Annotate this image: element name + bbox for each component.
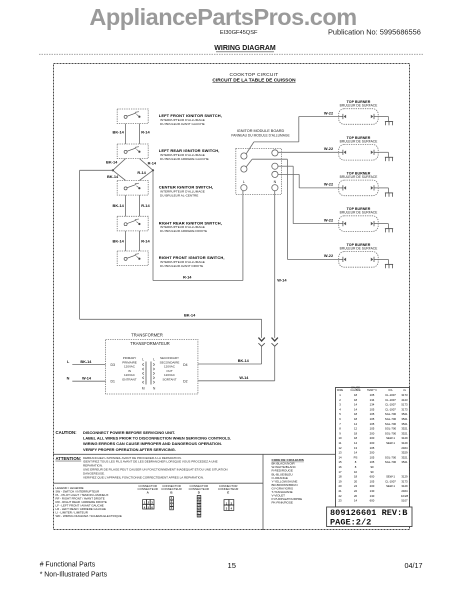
module board left terminal 2 — [241, 166, 247, 172]
svg-text:3129: 3129 — [401, 436, 408, 440]
svg-text:200: 200 — [370, 441, 375, 445]
svg-text:10: 10 — [354, 470, 358, 474]
svg-text:3521: 3521 — [401, 427, 408, 431]
svg-text:SGL-700: SGL-700 — [385, 427, 397, 431]
divider above LEGEND — [53, 482, 263, 484]
svg-text:14: 14 — [338, 455, 342, 459]
connector B header — [161, 484, 181, 495]
svg-text:D4: D4 — [183, 363, 187, 367]
wire BK-14 bus: crossover left node to left drop — [80, 169, 113, 171]
header separator rule — [39, 53, 424, 55]
svg-text:12: 12 — [338, 446, 342, 450]
label N / W-14 (primary bottom) — [67, 377, 92, 381]
svg-text:W-14: W-14 — [277, 277, 287, 282]
svg-text:DU BRULEUR AVANT DROITE: DU BRULEUR AVANT DROITE — [160, 264, 203, 268]
svg-text:D2: D2 — [183, 379, 187, 383]
transformer primary text — [122, 356, 137, 382]
svg-text:3521: 3521 — [401, 455, 408, 459]
top burner B3 (spark electrode) — [339, 180, 379, 196]
svg-text:BRULEUR DE SURFACE: BRULEUR DE SURFACE — [340, 211, 379, 215]
svg-text:600: 600 — [370, 499, 375, 503]
crossover wire: left node to S3 left terminal — [113, 170, 126, 180]
svg-text:3521: 3521 — [401, 412, 408, 416]
svg-text:14: 14 — [354, 499, 358, 503]
svg-text:105: 105 — [370, 412, 375, 416]
chassis ground symbol for burner B1 — [385, 122, 393, 126]
svg-text:CL-1007: CL-1007 — [385, 393, 396, 397]
top burner B2 label — [340, 136, 379, 143]
CAUTION notice — [56, 430, 232, 452]
ground wire for burner B5 — [378, 259, 388, 264]
ignitor switch S2 (LEFT REAR IGNITOR SWITCH) — [117, 144, 148, 159]
svg-text:105: 105 — [370, 460, 375, 464]
svg-text:105: 105 — [370, 407, 375, 411]
transformer secondary text — [160, 356, 180, 382]
svg-text:WIRING DIAGRAM: WIRING DIAGRAM — [214, 45, 276, 52]
top burner B1 (spark electrode) — [339, 109, 379, 125]
svg-text:PANNEAU DU MODULE D’ALLUMAGE: PANNEAU DU MODULE D’ALLUMAGE — [231, 133, 290, 137]
svg-text:VERIFY PROPER OPERATION AFTER: VERIFY PROPER OPERATION AFTER SERVICING. — [83, 447, 176, 452]
svg-text:VERIFIEZ QUE L’APPAREIL FONCTI: VERIFIEZ QUE L’APPAREIL FONCTIONNE CORRE… — [83, 475, 204, 479]
svg-text:19: 19 — [338, 479, 342, 483]
label for ignitor switch S4 — [159, 220, 222, 233]
wire BK-14 drop to transformer D4 — [261, 319, 263, 364]
svg-text:12: 12 — [354, 427, 358, 431]
svg-text:200: 200 — [370, 431, 375, 435]
module board left terminal 1 — [241, 153, 247, 159]
svg-text:3521: 3521 — [401, 422, 408, 426]
svg-text:N: N — [67, 377, 70, 381]
svg-text:CALIBRE: CALIBRE — [350, 389, 361, 392]
svg-text:R-14: R-14 — [141, 130, 150, 135]
ignitor switch S3 (CENTER IGNITOR SWITCH) — [117, 181, 148, 196]
svg-text:11: 11 — [339, 441, 342, 445]
svg-text:SGL-700: SGL-700 — [385, 422, 397, 426]
divider above ATTENTION — [53, 453, 335, 455]
svg-text:18: 18 — [354, 431, 358, 435]
svg-text:20: 20 — [354, 479, 358, 483]
svg-text:3521: 3521 — [401, 417, 408, 421]
svg-text:BRULEUR DE SURFACE: BRULEUR DE SURFACE — [340, 104, 379, 108]
svg-text:130: 130 — [370, 489, 375, 493]
svg-text:R-14: R-14 — [141, 238, 150, 243]
svg-text:22: 22 — [354, 489, 358, 493]
chassis ground symbol for burner B3 — [385, 193, 393, 197]
svg-text:BRULEUR DE SURFACE: BRULEUR DE SURFACE — [340, 139, 379, 143]
diagram border frame — [54, 64, 410, 530]
crossover wire: S2 left terminal to left node — [113, 159, 126, 171]
wire gauge table content — [337, 387, 409, 503]
svg-text:200: 200 — [370, 451, 375, 455]
svg-text:14: 14 — [354, 422, 358, 426]
part number box — [327, 507, 412, 527]
ignitor switch S4 (RIGHT REAR IGNITOR SWITCH) — [117, 216, 148, 231]
svg-text:ATTENTION:: ATTENTION: — [56, 456, 82, 461]
connector D header — [189, 484, 209, 495]
svg-text:BRULEUR DE SURFACE: BRULEUR DE SURFACE — [340, 175, 379, 179]
svg-text:18: 18 — [354, 393, 358, 397]
svg-text:13: 13 — [354, 446, 358, 450]
wire W-14 from module board N terminal down — [274, 191, 276, 338]
svg-text:CL-1007: CL-1007 — [385, 398, 396, 402]
svg-text:DU BRULEUR AVANT GAUCHE: DU BRULEUR AVANT GAUCHE — [160, 122, 205, 126]
svg-text:SGL-700: SGL-700 — [385, 431, 397, 435]
svg-text:TRANSFORMER: TRANSFORMER — [131, 333, 163, 338]
wire BK-14 between S3 and S4 (left) — [125, 195, 127, 216]
ground wire for burner B3 — [378, 188, 388, 193]
wire BK-14 between S1 and S2 (left) — [125, 124, 127, 144]
svg-text:CL-1007: CL-1007 — [385, 479, 396, 483]
svg-text:3521: 3521 — [401, 460, 408, 464]
ground wire for burner B2 — [378, 152, 388, 157]
wire R-14 from module board L terminal down — [242, 191, 244, 281]
svg-text:WIRING ERRORS CAN CAUSE IMPROP: WIRING ERRORS CAN CAUSE IMPROPER AND DAN… — [83, 441, 222, 446]
svg-text:D1: D1 — [111, 379, 115, 383]
svg-text:BK-14: BK-14 — [80, 360, 92, 364]
svg-text:W-14: W-14 — [239, 376, 249, 380]
wire W-22 board to burner B1 — [246, 117, 338, 154]
label for ignitor switch S1 — [159, 113, 222, 126]
svg-text:BK-14: BK-14 — [113, 238, 125, 243]
svg-text:105: 105 — [370, 417, 375, 421]
svg-text:18: 18 — [354, 436, 358, 440]
svg-text:13: 13 — [338, 451, 342, 455]
label for ignitor switch S5 — [159, 255, 225, 268]
svg-text:24: 24 — [354, 484, 358, 488]
svg-text:DU BRULEUR AL-CENTRE: DU BRULEUR AL-CENTRE — [160, 193, 198, 197]
wire BK-14 transformer D4 to connector — [198, 363, 262, 365]
module board right terminal 4 — [272, 185, 278, 191]
connector D pin strip — [197, 494, 201, 517]
svg-text:DISCONNECT POWER BEFORE SERVIC: DISCONNECT POWER BEFORE SERVICING UNIT. — [83, 430, 175, 435]
wire R-14 bus vertical — [152, 170, 154, 280]
svg-text:90: 90 — [370, 470, 374, 474]
chassis ground symbol for burner B4 — [385, 229, 393, 233]
wire W-14 drop to transformer D2 — [274, 346, 276, 381]
svg-text:18: 18 — [354, 398, 358, 402]
top burner B1 label — [340, 100, 379, 107]
ignitor switch S5 (RIGHT FRONT IGNITOR SWITCH) — [117, 251, 148, 266]
svg-text:18: 18 — [354, 412, 358, 416]
svg-text:SGL-700: SGL-700 — [385, 417, 397, 421]
svg-text:BK-14: BK-14 — [184, 313, 196, 318]
inline connector (left, BK-14 wire) — [258, 338, 264, 347]
svg-text:3173: 3173 — [401, 479, 408, 483]
svg-text:SEW-1: SEW-1 — [386, 484, 395, 488]
ignitor module board label — [231, 129, 290, 138]
svg-text:AppliancePartsPros.com: AppliancePartsPros.com — [89, 4, 356, 30]
svg-text:BK-14: BK-14 — [113, 130, 125, 135]
svg-text:ENTRANT: ENTRANT — [122, 378, 136, 382]
svg-text:PS: PS — [354, 455, 358, 459]
svg-text:SORTANT: SORTANT — [162, 378, 176, 382]
svg-text:04/17: 04/17 — [405, 561, 423, 570]
wire R-14 between S4 and S5 (right) — [138, 231, 140, 251]
svg-text:L: L — [142, 357, 144, 361]
svg-text:CL-1007: CL-1007 — [385, 407, 396, 411]
svg-text:WD - WIRING DIAGRAM / SCHEMA E: WD - WIRING DIAGRAM / SCHEMA ELECTRIQUE — [56, 514, 122, 518]
svg-text:W-22: W-22 — [324, 217, 334, 222]
svg-text:21: 21 — [338, 489, 342, 493]
transformer T1 outline — [106, 339, 198, 394]
svg-text:CIRCUIT DE LA TABLE DE CUISSON: CIRCUIT DE LA TABLE DE CUISSON — [212, 78, 296, 84]
svg-text:PAGE:2/2: PAGE:2/2 — [330, 518, 371, 528]
ground wire for burner B4 — [378, 224, 388, 229]
svg-text:LABEL ALL WIRES PRIOR TO DISCO: LABEL ALL WIRES PRIOR TO DISCONNECTION W… — [83, 436, 231, 441]
junction node right — [152, 169, 154, 171]
transformer winding labels — [142, 357, 156, 390]
svg-text:N: N — [274, 180, 277, 184]
svg-text:W-22: W-22 — [324, 146, 334, 151]
svg-text:200: 200 — [370, 484, 375, 488]
svg-text:TEMP °C: TEMP °C — [367, 389, 377, 392]
svg-text:134: 134 — [370, 403, 375, 407]
connector A header — [137, 484, 157, 495]
svg-text:2464: 2464 — [401, 446, 408, 450]
wire gauge table outline — [336, 388, 410, 508]
svg-text:15: 15 — [338, 460, 342, 464]
label for ignitor switch S3 — [159, 185, 213, 198]
svg-text:105: 105 — [370, 427, 375, 431]
svg-text:SEW-1: SEW-1 — [386, 475, 395, 479]
connector A pin grid — [143, 500, 154, 510]
svg-text:W-14: W-14 — [82, 377, 92, 381]
label for ignitor switch S2 — [159, 148, 220, 161]
svg-text:BK-14: BK-14 — [113, 203, 125, 208]
chassis ground symbol for burner B2 — [385, 157, 393, 161]
svg-text:23: 23 — [338, 499, 342, 503]
svg-text:3173: 3173 — [401, 407, 408, 411]
svg-text:BK-14: BK-14 — [107, 174, 119, 179]
svg-text:M: M — [142, 386, 145, 390]
connector E pin grid — [224, 500, 234, 511]
wire R-14 bus horizontal to module board L — [153, 280, 243, 282]
color code list — [272, 458, 304, 505]
svg-text:R-14: R-14 — [148, 161, 157, 166]
crossover wire: S2 right terminal to right node — [139, 159, 153, 171]
wire W-22 board to burner B3 — [278, 174, 339, 188]
svg-text:2464: 2464 — [401, 489, 408, 493]
svg-text:20: 20 — [338, 484, 342, 488]
svg-text:4123: 4123 — [401, 398, 408, 402]
svg-text:R-14: R-14 — [141, 203, 150, 208]
wire L BK-14 to transformer primary D3 — [72, 364, 105, 366]
svg-text:# Functional Parts: # Functional Parts — [40, 562, 96, 569]
wire BK-14 bus vertical drop — [79, 170, 81, 319]
svg-text:D3: D3 — [111, 363, 115, 367]
transformer terminal labels D3 D1 D4 D2 — [111, 363, 188, 383]
svg-text:18: 18 — [354, 417, 358, 421]
svg-text:3129: 3129 — [401, 441, 408, 445]
connector E header — [218, 484, 238, 495]
svg-text:105: 105 — [370, 393, 375, 397]
top burner B4 (spark electrode) — [339, 216, 379, 232]
module board right terminal 3 — [272, 171, 278, 177]
svg-text:WIRE: WIRE — [337, 389, 344, 392]
svg-text:L: L — [153, 357, 155, 361]
svg-text:16: 16 — [338, 465, 342, 469]
top burner B5 label — [340, 243, 379, 250]
svg-text:5173: 5173 — [401, 403, 408, 407]
junction node left — [112, 169, 114, 171]
top burner B4 label — [340, 207, 379, 214]
svg-text:105: 105 — [370, 455, 375, 459]
ground wire for burner B1 — [378, 117, 388, 122]
svg-text:600: 600 — [370, 475, 375, 479]
label L / BK-14 (primary top) — [67, 360, 92, 364]
svg-text:14: 14 — [354, 407, 358, 411]
ATTENTION notice — [56, 456, 228, 480]
svg-text:134: 134 — [370, 398, 375, 402]
wire W-22 board to burner B2 — [278, 151, 339, 153]
svg-text:22: 22 — [338, 494, 342, 498]
svg-text:14: 14 — [354, 441, 358, 445]
svg-text:105: 105 — [370, 479, 375, 483]
wire W-14 transformer D2 to connector — [198, 380, 275, 382]
svg-text:R-14: R-14 — [137, 170, 146, 175]
svg-text:COOKTOP CIRCUIT: COOKTOP CIRCUIT — [229, 72, 278, 78]
svg-text:3173: 3173 — [401, 393, 408, 397]
transformer core and windings — [143, 362, 155, 385]
wire W-22 board to burner B4 — [278, 166, 339, 223]
svg-text:17: 17 — [338, 470, 342, 474]
svg-text:15: 15 — [227, 561, 235, 570]
module board right terminal 2 — [272, 163, 278, 169]
svg-text:DU BRULEUR ARRIERE GAUCHE: DU BRULEUR ARRIERE GAUCHE — [160, 157, 209, 161]
svg-text:Publication No: 5995686556: Publication No: 5995686556 — [328, 28, 421, 37]
svg-text:14: 14 — [354, 403, 358, 407]
svg-text:R-14: R-14 — [183, 275, 192, 280]
svg-text:CL-1007: CL-1007 — [385, 403, 396, 407]
wire W-22 board to burner B5 — [246, 159, 338, 259]
color code divider — [262, 454, 264, 530]
svg-text:5107: 5107 — [401, 499, 408, 503]
svg-text:W-22: W-22 — [324, 110, 334, 115]
svg-text:14: 14 — [354, 451, 358, 455]
top burner B3 label — [340, 172, 379, 179]
svg-text:20: 20 — [354, 494, 358, 498]
footer functional parts note — [40, 562, 108, 579]
svg-text:L: L — [243, 180, 245, 184]
wire BK-14 between S4 and S5 (left) — [125, 231, 127, 251]
svg-text:18: 18 — [354, 475, 358, 479]
wire N W-14 to transformer primary D1 — [72, 380, 105, 382]
svg-text:3521: 3521 — [401, 431, 408, 435]
module board left terminal 3 — [241, 185, 247, 191]
svg-text:105: 105 — [370, 446, 375, 450]
svg-text:3529: 3529 — [401, 451, 408, 455]
connector B pin strip — [170, 496, 174, 510]
svg-text:* Non-Illustrated Parts: * Non-Illustrated Parts — [40, 571, 108, 578]
inline connector (right, W-14 wire) — [272, 338, 278, 347]
svg-text:DU BRULEUR ARRIERE DROITE: DU BRULEUR ARRIERE DROITE — [160, 229, 207, 233]
top burner B5 (spark electrode) — [339, 252, 379, 268]
wire BK-14 bus horizontal run — [80, 318, 262, 320]
svg-text:DIA: DIA — [389, 389, 393, 392]
ignitor module board outline — [236, 149, 282, 195]
svg-text:105: 105 — [370, 422, 375, 426]
chassis ground symbol for burner B5 — [385, 264, 393, 268]
svg-text:809126601 REV:B: 809126601 REV:B — [330, 508, 407, 518]
ignitor switch S1 (LEFT FRONT IGNITOR SWITCH) — [117, 109, 148, 124]
svg-text:BK-14: BK-14 — [238, 359, 250, 363]
svg-text:CAUTION:: CAUTION: — [56, 430, 78, 435]
svg-text:SEW-1: SEW-1 — [386, 436, 395, 440]
wire R-14 between S1 and S2 (right) — [138, 124, 140, 144]
svg-text:18: 18 — [338, 475, 342, 479]
svg-text:200: 200 — [370, 436, 375, 440]
svg-text:SGL-700: SGL-700 — [385, 460, 397, 464]
svg-text:SEW-1: SEW-1 — [386, 441, 395, 445]
svg-text:90: 90 — [370, 465, 374, 469]
svg-text:EI30GF45QSF: EI30GF45QSF — [220, 30, 258, 36]
crossover wire: right node to S3 right terminal — [139, 170, 153, 180]
svg-text:E: E — [227, 491, 229, 495]
svg-text:IDENTIFIEZ TOUS LES FILS AVANT: IDENTIFIEZ TOUS LES FILS AVANT DE LES DE… — [83, 460, 218, 464]
svg-text:TRANSFORMATEUR: TRANSFORMATEUR — [130, 341, 170, 346]
svg-text:PK-PINK/ROSE: PK-PINK/ROSE — [272, 501, 293, 505]
svg-text:130: 130 — [370, 494, 375, 498]
svg-text:SGL-700: SGL-700 — [385, 412, 397, 416]
wire R-14 between S3 and S4 (right) — [138, 195, 140, 216]
svg-text:10/28: 10/28 — [401, 494, 408, 498]
svg-text:IGNITOR MODULE BOARD: IGNITOR MODULE BOARD — [237, 129, 285, 133]
svg-text:3129: 3129 — [401, 484, 408, 488]
top burner B2 (spark electrode) — [339, 145, 379, 161]
svg-text:BK-14: BK-14 — [106, 159, 118, 164]
svg-text:SGL-700: SGL-700 — [385, 455, 397, 459]
svg-text:BRULEUR DE SURFACE: BRULEUR DE SURFACE — [340, 246, 379, 250]
svg-text:W-22: W-22 — [324, 182, 334, 187]
module board right terminal 1 — [272, 150, 278, 156]
svg-text:W-22: W-22 — [324, 253, 334, 258]
legend block — [56, 486, 122, 518]
svg-text:10: 10 — [338, 436, 342, 440]
svg-text:3129: 3129 — [401, 475, 408, 479]
